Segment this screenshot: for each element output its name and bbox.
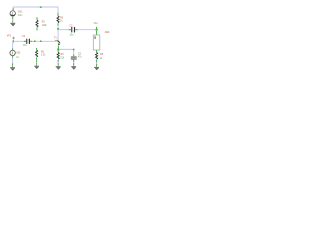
ground below R2 xyxy=(34,60,39,69)
ammeter AM1 xyxy=(93,31,110,50)
svg-text:VG1: VG1 xyxy=(18,11,23,13)
svg-text:VF1: VF1 xyxy=(7,36,12,38)
ground below C3 xyxy=(71,63,76,69)
ground below R5 xyxy=(94,64,99,71)
wire collector column xyxy=(57,26,59,41)
svg-text:AM1: AM1 xyxy=(105,31,110,34)
svg-text:R4: R4 xyxy=(61,54,65,56)
svg-text:10u: 10u xyxy=(23,45,28,47)
wire left column down xyxy=(12,43,14,51)
node rail junction xyxy=(40,6,42,8)
capacitor C1 xyxy=(22,36,32,47)
capacitor C3 xyxy=(71,53,83,62)
wire top rail xyxy=(13,7,58,13)
wire C2 to out node xyxy=(78,29,97,31)
svg-text:VS1: VS1 xyxy=(16,52,21,54)
svg-text:47u: 47u xyxy=(78,57,83,59)
node base wire 1 xyxy=(34,41,36,43)
node emitter junction xyxy=(57,49,59,51)
svg-text:C3: C3 xyxy=(78,53,82,55)
ground below R4 xyxy=(56,63,61,69)
resistor R2 xyxy=(35,48,46,60)
svg-text:1k: 1k xyxy=(60,21,63,23)
svg-text:10m: 10m xyxy=(18,15,23,17)
svg-text:T1: T1 xyxy=(54,38,57,40)
svg-text:C1: C1 xyxy=(22,36,26,38)
node collector junction xyxy=(57,28,59,30)
wire to C2 xyxy=(58,29,69,31)
node Out xyxy=(94,22,98,30)
svg-text:2.2k: 2.2k xyxy=(41,55,46,57)
svg-text:220: 220 xyxy=(60,58,65,60)
svg-text:10u: 10u xyxy=(70,35,75,37)
source VG1 xyxy=(10,8,23,19)
svg-text:R3: R3 xyxy=(60,17,64,19)
resistor R1 xyxy=(36,17,48,30)
svg-text:Out: Out xyxy=(94,22,98,25)
source VS1 xyxy=(10,48,21,59)
svg-text:1k: 1k xyxy=(100,58,103,60)
node corner C3 xyxy=(73,49,75,51)
resistor R3 xyxy=(57,13,64,26)
node VF probe xyxy=(7,36,15,40)
svg-text:C2: C2 xyxy=(70,25,74,27)
node base wire 2 xyxy=(40,41,42,43)
resistor R5 xyxy=(96,50,104,63)
node corner tick xyxy=(13,40,14,43)
wire emitter junction xyxy=(58,48,73,54)
wire left column to C1 xyxy=(13,41,25,43)
resistor R4 xyxy=(57,50,65,62)
wire C3 to ground xyxy=(73,62,75,64)
svg-text:R2: R2 xyxy=(41,51,45,53)
svg-text:100k: 100k xyxy=(42,25,48,27)
wire C1 to base xyxy=(32,40,55,42)
wire R4 to ground xyxy=(57,62,59,64)
ground below VS1 xyxy=(10,63,15,70)
svg-text:R5: R5 xyxy=(100,54,104,56)
transistor T1 xyxy=(54,38,60,49)
capacitor C2 xyxy=(69,25,78,36)
wire VS1 to ground xyxy=(12,58,14,64)
svg-text:R1: R1 xyxy=(42,22,46,24)
svg-text:12: 12 xyxy=(16,57,19,59)
wire R5 to ground xyxy=(96,62,98,64)
ground below VG1 xyxy=(10,19,15,26)
